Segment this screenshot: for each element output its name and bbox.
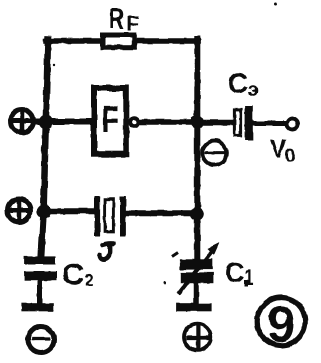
ink speck top right <box>274 3 277 6</box>
capacitor C2 top plate <box>24 256 56 264</box>
corner blob top left <box>44 37 52 45</box>
wire crystal left <box>47 208 95 214</box>
terminal plus bottom right <box>184 324 211 351</box>
wire F output <box>139 119 196 125</box>
C1 trimmer arrow <box>180 251 213 293</box>
wire C1 to terminal <box>193 283 199 304</box>
inverter bubble <box>130 118 138 126</box>
crystal J body <box>105 199 114 232</box>
capacitor C3 right plate <box>245 106 253 140</box>
svg-text:э: э <box>248 79 259 100</box>
ink speck lower middle <box>164 282 167 285</box>
svg-text:9: 9 <box>267 296 295 353</box>
wire crystal right <box>125 210 194 216</box>
junction node B <box>37 204 51 218</box>
svg-text:F: F <box>126 12 139 35</box>
wire C3 to output <box>252 121 287 126</box>
svg-text:0: 0 <box>285 145 295 166</box>
svg-text:R: R <box>109 3 124 35</box>
figure number circle <box>257 298 305 346</box>
node plus upper left <box>11 110 34 133</box>
node plus lower left <box>8 199 31 222</box>
crystal J right plate <box>120 196 126 236</box>
wire left vertical <box>41 39 48 260</box>
corner blob top right <box>193 37 201 45</box>
op-amp U1 (block F) <box>94 88 126 154</box>
label J <box>99 243 113 259</box>
junction node D <box>190 207 204 221</box>
terminal bar minus <box>21 303 53 311</box>
wire C2 to terminal <box>38 280 43 304</box>
ink speck left <box>53 64 55 66</box>
svg-text:2: 2 <box>85 273 94 290</box>
capacitor C1 bottom plate <box>181 272 214 283</box>
terminal bar plus <box>176 303 212 311</box>
svg-text:C: C <box>225 258 245 290</box>
resistor RF <box>103 35 135 47</box>
svg-text:C: C <box>62 259 84 291</box>
junction node C <box>190 116 203 129</box>
output terminal V0 <box>287 119 298 130</box>
wire F input <box>36 119 92 125</box>
ink blob near figure circle <box>245 280 249 286</box>
terminal minus bottom left <box>28 327 54 353</box>
junction node A <box>39 115 53 129</box>
capacitor C3 left plate <box>234 110 240 136</box>
wire to C3 <box>199 120 234 126</box>
capacitor C2 bottom plate <box>25 271 57 281</box>
svg-text:F: F <box>102 100 120 142</box>
ink tick near C1 plate <box>172 253 178 257</box>
wire right vertical <box>194 39 200 262</box>
capacitor C1 top plate <box>180 259 213 270</box>
crystal J left plate <box>95 196 101 236</box>
wire top feedback <box>46 38 198 44</box>
svg-text:C: C <box>228 68 248 100</box>
node minus output <box>202 141 226 165</box>
